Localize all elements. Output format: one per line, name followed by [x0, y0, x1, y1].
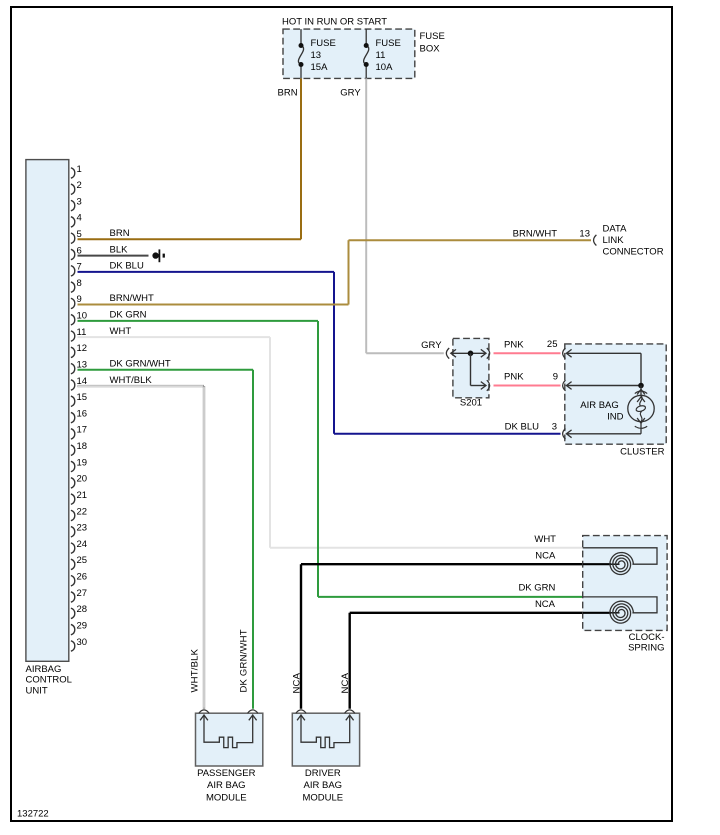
svg-text:NCA: NCA	[535, 599, 556, 610]
svg-text:23: 23	[77, 523, 88, 534]
svg-text:DRIVER: DRIVER	[305, 768, 341, 779]
svg-text:DATA: DATA	[603, 224, 628, 235]
svg-text:9: 9	[553, 371, 558, 382]
svg-text:FUSE: FUSE	[376, 38, 401, 49]
svg-text:AIR BAG: AIR BAG	[304, 780, 343, 791]
svg-text:CONNECTOR: CONNECTOR	[603, 247, 664, 258]
svg-text:21: 21	[77, 490, 88, 501]
svg-text:24: 24	[77, 539, 88, 550]
svg-text:DK GRN: DK GRN	[518, 582, 555, 593]
svg-text:4: 4	[77, 213, 82, 224]
svg-text:WHT/BLK: WHT/BLK	[110, 375, 153, 386]
svg-text:11: 11	[376, 50, 386, 61]
svg-text:30: 30	[77, 637, 88, 648]
svg-text:27: 27	[77, 588, 88, 599]
svg-text:MODULE: MODULE	[206, 792, 247, 803]
svg-text:DK BLU: DK BLU	[110, 261, 144, 272]
svg-text:WHT: WHT	[110, 326, 132, 337]
svg-text:BRN: BRN	[110, 228, 130, 239]
svg-text:3: 3	[552, 421, 557, 432]
svg-text:IND: IND	[607, 411, 624, 422]
svg-text:25: 25	[547, 339, 558, 350]
svg-text:SPRING: SPRING	[628, 643, 664, 654]
svg-text:2: 2	[77, 180, 82, 191]
svg-text:12: 12	[77, 343, 88, 354]
svg-text:17: 17	[77, 425, 88, 436]
svg-text:MODULE: MODULE	[302, 792, 343, 803]
svg-text:NCA: NCA	[292, 672, 303, 693]
svg-text:DK GRN/WHT: DK GRN/WHT	[110, 358, 171, 369]
svg-text:AIRBAG: AIRBAG	[26, 664, 62, 675]
svg-text:26: 26	[77, 572, 88, 583]
svg-text:22: 22	[77, 506, 88, 517]
svg-text:13: 13	[579, 229, 590, 240]
svg-text:CLOCK-: CLOCK-	[629, 632, 665, 643]
svg-text:25: 25	[77, 555, 88, 566]
svg-text:15A: 15A	[311, 62, 329, 73]
svg-text:DK BLU: DK BLU	[505, 422, 539, 433]
svg-text:CLUSTER: CLUSTER	[620, 447, 664, 458]
svg-text:29: 29	[77, 620, 88, 631]
svg-text:BLK: BLK	[110, 244, 129, 255]
svg-text:15: 15	[77, 392, 88, 403]
svg-text:10A: 10A	[376, 62, 394, 73]
svg-text:AIR BAG: AIR BAG	[207, 780, 246, 791]
svg-text:GRY: GRY	[340, 88, 361, 99]
svg-text:CONTROL: CONTROL	[26, 675, 72, 686]
svg-text:FUSE: FUSE	[420, 31, 445, 42]
svg-text:11: 11	[77, 327, 87, 338]
svg-text:FUSE: FUSE	[311, 38, 336, 49]
svg-text:DK GRN: DK GRN	[110, 310, 147, 321]
svg-text:19: 19	[77, 457, 88, 468]
svg-text:1: 1	[77, 164, 82, 175]
svg-text:UNIT: UNIT	[26, 685, 48, 696]
svg-text:WHT: WHT	[534, 534, 556, 545]
svg-text:NCA: NCA	[340, 672, 351, 693]
svg-text:3: 3	[77, 196, 82, 207]
svg-text:13: 13	[311, 50, 322, 61]
svg-text:NCA: NCA	[535, 550, 556, 561]
svg-text:S201: S201	[460, 397, 482, 408]
svg-text:28: 28	[77, 604, 88, 615]
svg-text:GRY: GRY	[421, 340, 442, 351]
svg-text:DK GRN/WHT: DK GRN/WHT	[239, 629, 250, 692]
svg-text:20: 20	[77, 474, 88, 485]
svg-text:WHT/BLK: WHT/BLK	[190, 648, 201, 692]
svg-text:BRN: BRN	[278, 88, 298, 99]
svg-text:AIR BAG: AIR BAG	[580, 400, 619, 411]
svg-text:18: 18	[77, 441, 88, 452]
svg-text:BOX: BOX	[420, 44, 441, 55]
svg-text:PNK: PNK	[504, 339, 524, 350]
svg-text:132722: 132722	[17, 809, 49, 820]
svg-text:PNK: PNK	[504, 371, 524, 382]
svg-text:PASSENGER: PASSENGER	[197, 768, 256, 779]
svg-text:BRN/WHT: BRN/WHT	[513, 229, 558, 240]
svg-text:16: 16	[77, 408, 88, 419]
svg-text:LINK: LINK	[603, 235, 625, 246]
svg-text:8: 8	[77, 278, 82, 289]
svg-text:BRN/WHT: BRN/WHT	[110, 293, 155, 304]
svg-text:HOT IN RUN OR START: HOT IN RUN OR START	[282, 16, 387, 27]
